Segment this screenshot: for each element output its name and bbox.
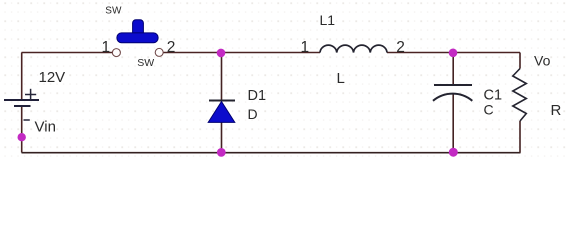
wire capacitor top lead xyxy=(452,53,454,86)
battery V1 top plate xyxy=(4,99,39,101)
junction dot at capacitor bottom xyxy=(449,148,458,157)
wire diode bottom lead xyxy=(221,123,223,153)
junction dot at capacitor top xyxy=(449,49,458,58)
wire diode top lead xyxy=(221,53,223,101)
capacitor C1 curved plate xyxy=(433,94,472,101)
battery plus sign xyxy=(25,89,36,100)
wire bottom rail xyxy=(22,152,521,154)
svg-text:Vin: Vin xyxy=(35,119,56,136)
svg-text:12V: 12V xyxy=(39,69,66,86)
wire switch pin 2 to inductor pin 1 xyxy=(163,52,320,54)
svg-text:2: 2 xyxy=(396,39,405,56)
battery V1 bottom plate xyxy=(14,105,31,107)
junction dot at diode bottom xyxy=(217,148,226,157)
junction dot below battery xyxy=(18,133,26,141)
svg-text:SW: SW xyxy=(105,6,122,17)
wire capacitor bottom lead xyxy=(452,94,454,153)
switch SW blue button (T shape) xyxy=(117,20,158,43)
svg-text:D: D xyxy=(248,106,258,122)
svg-text:D1: D1 xyxy=(248,88,267,104)
wire top-left horizontal (battery + to switch pin 1) xyxy=(22,52,113,54)
wire inductor pin 2 to top-right corner xyxy=(387,52,520,54)
svg-text:R: R xyxy=(551,102,562,119)
battery minus sign xyxy=(24,119,30,121)
svg-text:2: 2 xyxy=(167,39,176,56)
wire right vertical resistor top lead xyxy=(519,53,521,69)
wire resistor bottom lead xyxy=(519,121,521,153)
svg-text:L: L xyxy=(337,70,345,87)
svg-text:L1: L1 xyxy=(320,12,336,28)
svg-text:Vo: Vo xyxy=(534,53,551,69)
diode D1 cathode bar xyxy=(209,100,235,102)
resistor R zigzag xyxy=(513,69,527,122)
wire battery bottom lead xyxy=(21,106,23,153)
inductor L1 coil xyxy=(320,45,387,52)
switch SW terminal circle pin 2 xyxy=(155,48,163,56)
switch SW terminal circle pin 1 xyxy=(112,49,120,57)
junction dot at diode top xyxy=(217,49,226,58)
svg-text:C: C xyxy=(484,101,494,117)
diode D1 triangle xyxy=(208,102,235,123)
svg-text:SW: SW xyxy=(137,57,154,69)
svg-text:1: 1 xyxy=(102,39,111,56)
wire left vertical (to battery top plate) xyxy=(21,53,23,101)
svg-text:1: 1 xyxy=(301,39,310,56)
capacitor C1 top plate xyxy=(434,84,472,86)
